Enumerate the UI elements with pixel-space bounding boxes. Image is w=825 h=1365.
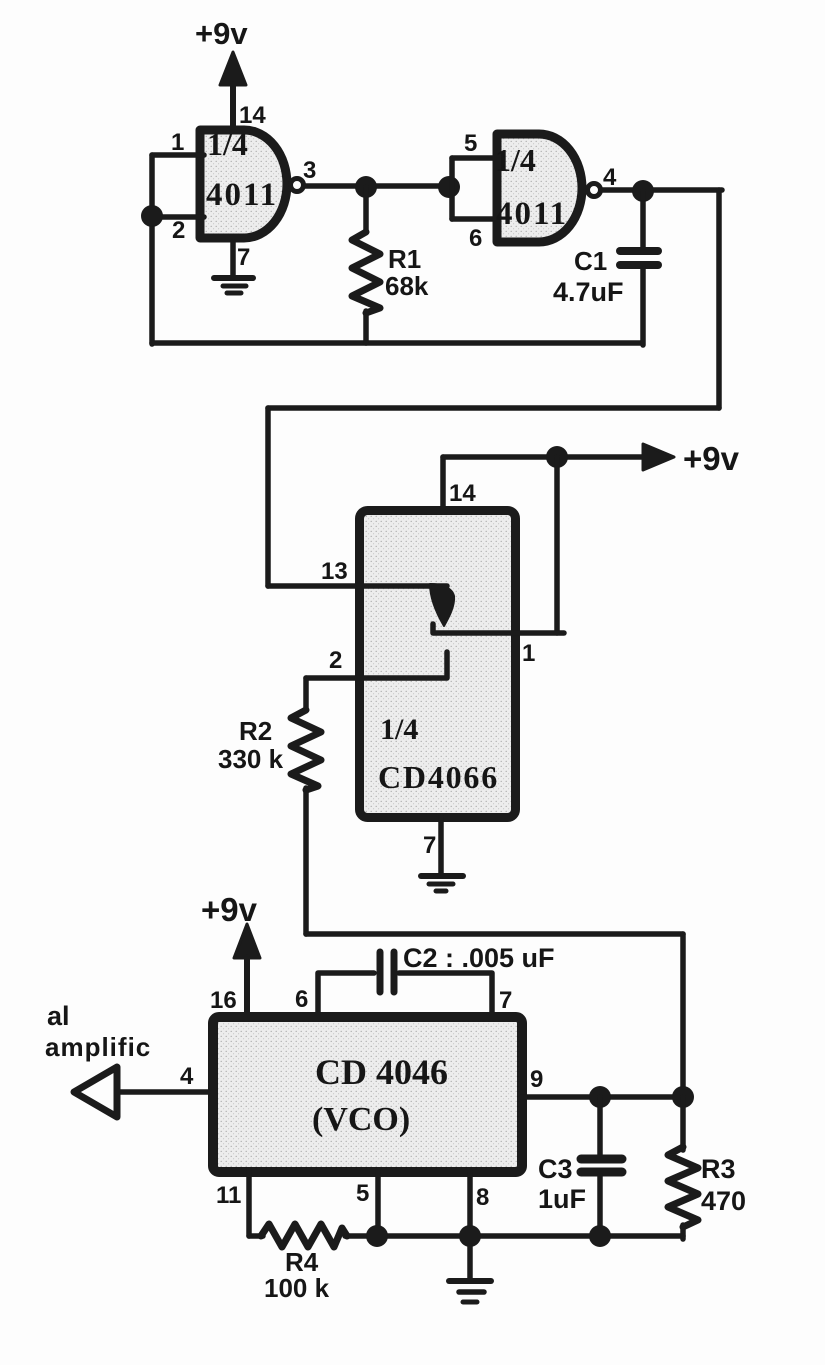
wire pin4 output [118, 1089, 208, 1095]
node C3 bottom junction [589, 1225, 611, 1247]
capacitor C1 plate top [620, 247, 658, 255]
power +9v arrow (middle) [643, 444, 674, 470]
svg-text:1: 1 [171, 129, 184, 156]
svg-text:330 k: 330 k [218, 744, 284, 774]
wire R3 bottom stem [680, 1225, 686, 1239]
wire pin13 into switch [268, 583, 447, 589]
wire C3 top stem [597, 1097, 603, 1155]
ground gate1 bar1 [214, 275, 253, 281]
svg-text:C2 : .005 uF: C2 : .005 uF [403, 943, 555, 973]
ground gate1 bar2 [223, 284, 246, 289]
svg-text:8: 8 [476, 1184, 489, 1211]
wire pin5 gate2 [452, 155, 497, 161]
ground U2 bar3 [436, 889, 446, 894]
svg-text:2: 2 [329, 647, 342, 674]
wire pin8 stem [467, 1172, 473, 1236]
svg-text:7: 7 [237, 244, 250, 271]
svg-text:7: 7 [499, 987, 512, 1014]
wire R1 top stem [363, 187, 369, 232]
node pin5 junction [366, 1225, 388, 1247]
node R3 top junction [672, 1086, 694, 1108]
svg-text:R3: R3 [701, 1154, 736, 1184]
wire long horizontal to pin13 [268, 405, 719, 411]
output triangle to amplifier [74, 1067, 117, 1117]
wire pin9 [522, 1094, 683, 1100]
capacitor C3 plate top [581, 1155, 622, 1164]
node gate2 input junction [438, 176, 460, 198]
svg-text:3: 3 [303, 157, 316, 184]
ground pin8 bar1 [449, 1278, 491, 1284]
wire pin6 up [318, 973, 374, 1014]
IC U2 CD4066 body [360, 511, 516, 818]
wire pin16 stem [244, 957, 250, 1014]
svg-text:CD 4046: CD 4046 [315, 1052, 448, 1092]
wire junction down to pin1 [554, 457, 560, 633]
svg-text:1: 1 [522, 640, 535, 667]
power +9v arrow (bottom) [234, 924, 260, 958]
node R1 top junction [355, 176, 377, 198]
svg-text:16: 16 [210, 987, 237, 1014]
inverter bubble U1a [291, 179, 304, 192]
svg-text:470: 470 [701, 1186, 746, 1216]
ground gate1 bar3 [227, 291, 241, 296]
wire pin8 ground stem [467, 1246, 473, 1279]
resistor R1 zigzag [352, 232, 380, 313]
wire pin14 gate1 to +9v [230, 84, 236, 128]
svg-text:13: 13 [321, 558, 348, 585]
resistor R4 zigzag [261, 1224, 347, 1247]
wire pin2 switch contact [306, 652, 447, 678]
node pin8 junction [459, 1225, 481, 1247]
svg-text:1uF: 1uF [538, 1184, 586, 1214]
svg-text:C3: C3 [538, 1154, 573, 1184]
wire pin11 stem [246, 1172, 252, 1236]
wire pin1 switch contact [433, 624, 564, 633]
node input tie junction [141, 205, 163, 227]
svg-text:4: 4 [180, 1063, 194, 1090]
wire left vertical input tie [149, 155, 155, 344]
svg-text:68k: 68k [385, 271, 429, 301]
wire C1 top stem [640, 191, 646, 247]
ground U2 bar1 [421, 873, 463, 879]
svg-text:6: 6 [295, 986, 308, 1013]
wire left vertical to pin13 [265, 408, 271, 586]
svg-text:2: 2 [172, 217, 185, 244]
wire right vertical to pin9 net [680, 934, 686, 1098]
svg-text:6: 6 [469, 225, 482, 252]
wire R3 top stem [680, 1097, 686, 1150]
wire pin2 gate1 [152, 214, 204, 220]
svg-text:+9v: +9v [195, 16, 248, 51]
svg-text:14: 14 [239, 102, 266, 129]
svg-text:9: 9 [530, 1066, 543, 1093]
wire C1 bottom stem [640, 269, 646, 345]
wire R1 bottom stem [363, 311, 369, 343]
wire pin1 gate1 [152, 152, 204, 158]
wire R2 bottom horizontal [306, 931, 683, 937]
node C3 top junction [589, 1086, 611, 1108]
svg-text:5: 5 [464, 130, 477, 157]
wire pin14 stub [440, 457, 446, 510]
node C1 top junction [632, 180, 654, 202]
ground pin8 bar2 [459, 1289, 484, 1295]
svg-text:4011: 4011 [496, 196, 568, 232]
svg-text:11: 11 [216, 1182, 241, 1209]
NAND gate U1b 4011 body [497, 134, 582, 242]
svg-text:+9v: +9v [201, 891, 258, 928]
svg-text:7: 7 [423, 832, 436, 859]
power +9v arrow (top) [220, 52, 246, 85]
capacitor C1 plate bottom [620, 261, 658, 269]
wire bottom net horizontal [249, 1233, 263, 1239]
wire pin7 gate1 stem [230, 242, 236, 277]
resistor R2 zigzag [291, 710, 321, 790]
wire gate2 input tie vertical [449, 158, 455, 219]
NAND gate U1a 4011 body [200, 130, 287, 238]
wire feedback bottom [152, 340, 641, 346]
svg-text:1/4: 1/4 [495, 142, 536, 178]
svg-text:R1: R1 [388, 244, 421, 274]
capacitor C2 plate right [391, 952, 398, 992]
wire C2 to pin7 [399, 973, 492, 1014]
ground U2 bar2 [429, 882, 453, 887]
svg-text:1/4: 1/4 [207, 126, 248, 162]
wire gate2 output [602, 187, 722, 193]
svg-text:(VCO): (VCO) [312, 1101, 410, 1138]
svg-text:4011: 4011 [206, 177, 278, 213]
wire pin6 gate2 [452, 216, 497, 222]
svg-text:R2: R2 [239, 716, 272, 746]
svg-text:5: 5 [356, 1180, 369, 1207]
wire +9v horizontal [443, 454, 660, 460]
svg-text:amplific: amplific [45, 1032, 151, 1062]
inverter bubble U1b [588, 184, 601, 197]
wire R2 top stem [303, 678, 309, 710]
svg-text:+9v: +9v [683, 440, 740, 477]
wire right vertical from pin4 [716, 190, 722, 408]
wire gate1 output to gate2 input [305, 183, 452, 189]
svg-text:4.7uF: 4.7uF [553, 277, 624, 307]
svg-text:14: 14 [449, 480, 476, 507]
resistor R3 zigzag [668, 1147, 698, 1227]
node +9v junction [546, 446, 568, 468]
svg-text:100 k: 100 k [264, 1273, 330, 1303]
capacitor C2 plate left [377, 952, 384, 992]
svg-text:C1: C1 [574, 246, 607, 276]
switch control arrow teardrop [430, 584, 454, 626]
svg-text:4: 4 [603, 164, 617, 191]
wire R2 bottom stem [303, 788, 309, 934]
svg-text:1/4: 1/4 [380, 713, 418, 746]
ground pin8 bar3 [463, 1300, 477, 1305]
capacitor C3 plate bottom [581, 1168, 622, 1177]
wire C3 bottom stem [597, 1176, 603, 1239]
wire pin7 stub U2 [438, 817, 444, 875]
wire pin5 stem [375, 1172, 381, 1236]
svg-text:CD4066: CD4066 [378, 759, 499, 795]
IC U3 CD4046 body [213, 1017, 522, 1172]
svg-text:al: al [47, 1001, 70, 1031]
